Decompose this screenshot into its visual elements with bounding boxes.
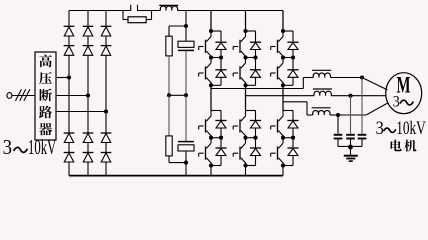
transistor V13 IGBT <box>199 111 211 138</box>
wire leg 2 cell 2 diode bottom lead <box>255 77 257 85</box>
node leg 3 top <box>281 29 285 33</box>
wire leg 1 midpoint vertical <box>210 85 212 110</box>
wire phase V output (leg 2) <box>246 95 315 97</box>
wire leg 3 cell 3 diode bottom lead <box>292 128 294 138</box>
diode VD34 freewheel <box>287 148 298 156</box>
diode VD14 <box>64 153 75 163</box>
wire input line <box>12 95 35 97</box>
wire leg 1 cell 3 top link <box>211 110 221 112</box>
diode VD22 <box>83 46 94 56</box>
diode VD24 freewheel <box>250 148 261 156</box>
resistor R3 balance lower <box>166 136 172 156</box>
label breaker text 断 <box>39 89 52 102</box>
wire R2 to midpoint <box>168 56 170 95</box>
wire cap CU bottom lead <box>361 139 363 146</box>
label motor 3~ <box>393 94 414 111</box>
node leg 3 cell 1 diode anode <box>291 55 295 59</box>
diode VD13 <box>64 133 75 143</box>
node phase C junction <box>104 109 108 113</box>
capacitor CW filter <box>334 135 343 139</box>
wire top DC+ bus (reactor to inverter) <box>178 10 283 12</box>
wire L1 to node <box>331 77 363 79</box>
inductor L3 phase W <box>313 110 330 115</box>
svg-text:10kV: 10kV <box>396 119 426 139</box>
input terminal <box>7 93 12 99</box>
node leg 2 cell 1 diode anode <box>253 55 257 59</box>
wire leg 1 cell 4 diode top lead <box>220 138 222 148</box>
motor M1 body <box>386 73 422 114</box>
wire leg 1 cell 3 diode bottom lead <box>220 128 222 138</box>
node leg 3 cell 4 emitter <box>281 163 285 167</box>
wire leg 1 cell 4 diode bottom lead <box>220 156 222 166</box>
wire leg 2 cell 3 diode top lead <box>255 111 257 121</box>
wire leg 3 cell 1 diode top lead <box>292 31 294 42</box>
wire leg 3 cell 4 diode bottom lead <box>292 156 294 166</box>
wire leg 2 cell 1 bottom link <box>246 57 256 59</box>
wire leg 3 cell 2 bottom link <box>283 84 293 86</box>
transistor V23 IGBT <box>233 111 245 138</box>
wire C1 top lead <box>185 26 187 41</box>
capacitor C1 lower plate <box>178 49 194 51</box>
wire rectifier column 3 <box>105 11 107 176</box>
wire cap CW bottom lead <box>337 139 339 146</box>
capacitor CV filter <box>346 135 355 139</box>
inductor L0 DC reactor <box>160 6 177 11</box>
diode VD31 freewheel <box>287 42 298 49</box>
wire L3 to node <box>330 114 338 116</box>
wire L2 to node <box>331 95 350 97</box>
diode VD21 <box>83 26 94 36</box>
diode VD32 <box>101 46 112 56</box>
inductor L3 core bar <box>312 107 331 109</box>
diode VD14 freewheel <box>215 148 226 156</box>
label motor text 电 <box>391 140 402 152</box>
diode VD12 <box>64 46 75 56</box>
wire link top jog <box>169 26 186 36</box>
wire cap CV bottom lead <box>350 139 352 146</box>
wire leg 3 cell 3 bottom link <box>283 137 293 139</box>
wire leg 2 cell 2 bottom link <box>246 84 256 86</box>
wire leg 1 cell 4 bottom link <box>211 165 221 167</box>
node leg 3 cell 1 emitter <box>281 55 285 59</box>
wire midpoint to R3 <box>168 95 170 136</box>
transistor V31 IGBT <box>271 31 283 58</box>
node DC link top junction <box>184 24 188 28</box>
diode VD24 <box>83 153 94 163</box>
diode VD33 <box>101 133 112 143</box>
wire phase W output (leg 3) <box>283 102 313 115</box>
node DC midpoint left <box>167 93 171 97</box>
wire precharge branch right riser <box>146 11 151 20</box>
wire R3 to bottom jog <box>169 156 186 163</box>
label breaker text 高 <box>39 55 51 68</box>
wire leg 1 cell 3 bottom link <box>211 137 221 139</box>
transistor V33 IGBT <box>271 111 283 138</box>
diode VD22 freewheel <box>250 70 261 78</box>
wire leg 1 cell 1 bottom link <box>211 57 221 59</box>
diode VD13 freewheel <box>215 121 226 129</box>
node leg 1 cell 3 diode anode <box>219 136 223 140</box>
wire star to ground <box>350 146 352 155</box>
diode VD11 <box>64 26 75 36</box>
precharge bypass contact K1 <box>131 5 138 11</box>
wire leg 2 cell 1 diode top lead <box>255 31 257 42</box>
wire midpoint to C2 <box>185 95 187 141</box>
wire leg 3 midpoint vertical <box>282 85 284 110</box>
diode VD11 freewheel <box>215 42 226 49</box>
diode VD21 freewheel <box>250 42 261 49</box>
resistor R1 precharge <box>128 17 146 23</box>
wire leg 2 cell 4 diode bottom lead <box>255 156 257 166</box>
wire DC midpoint link <box>169 94 186 96</box>
node leg 2 top <box>243 29 247 33</box>
node leg 3 cell 3 diode anode <box>291 136 295 140</box>
label breaker text 器 <box>39 123 52 135</box>
wire DC+ tap to link <box>185 11 187 26</box>
wire top DC+ bus (contact to reactor) <box>138 10 161 12</box>
wire leg 2 bottom to DC- bus <box>245 166 247 176</box>
node leg 2 cell 4 emitter <box>243 163 247 167</box>
wire leg 2 cell 3 diode bottom lead <box>255 128 257 138</box>
HV circuit breaker box <box>35 52 56 140</box>
wire rectifier column 1 <box>68 11 70 176</box>
wire leg 1 bottom to DC- bus <box>210 166 212 176</box>
diode VD32 freewheel <box>287 70 298 78</box>
node phase A junction <box>67 75 71 79</box>
transistor V32 IGBT <box>271 58 283 85</box>
wire leg 3 cell 1 bottom link <box>283 57 293 59</box>
node leg 1 top <box>209 29 213 33</box>
wire leg 3 bottom to DC- bus <box>282 166 284 176</box>
node leg 1 cell 4 emitter <box>209 163 213 167</box>
svg-text:3: 3 <box>376 119 384 139</box>
wire rectifier column 2 <box>87 11 89 176</box>
svg-text:10kV: 10kV <box>28 135 56 159</box>
wire phase U output (leg 1) <box>211 78 313 89</box>
wire leg 1 cell 1 diode top lead <box>220 31 222 42</box>
wire leg 1 cell 2 bottom link <box>211 84 221 86</box>
node leg 3 cell 3 emitter <box>281 136 285 140</box>
wire leg 2 top drop <box>245 11 247 32</box>
node leg 1 cell 1 diode anode <box>219 55 223 59</box>
node DC midpoint right <box>184 93 188 97</box>
inductor L1 phase U <box>313 73 330 78</box>
ground symbol <box>344 156 358 161</box>
diode VD12 freewheel <box>215 70 226 78</box>
label motor text 机 <box>404 140 416 152</box>
inductor L2 core bar <box>313 88 332 90</box>
diode VD33 freewheel <box>287 121 298 129</box>
wire leg 3 cell 3 top link <box>283 110 293 112</box>
node leg 1 cell 2 emitter <box>209 83 213 87</box>
node DC link bottom junction <box>184 161 188 165</box>
node leg 2 cell 2 emitter <box>243 83 247 87</box>
wire leg 3 top drop <box>282 11 284 32</box>
node filter star point <box>348 145 353 150</box>
wire leg 3 cell 4 bottom link <box>283 165 293 167</box>
wire leg 3 cell 2 diode bottom lead <box>292 77 294 85</box>
wire leg 2 cell 4 bottom link <box>246 165 256 167</box>
node filter U <box>360 75 364 79</box>
label breaker text 路 <box>39 106 52 119</box>
transistor V11 IGBT <box>199 31 211 58</box>
transistor V24 IGBT <box>233 138 245 165</box>
node leg 2 cell 1 emitter <box>243 55 247 59</box>
inductor L2 phase V <box>314 91 331 96</box>
wire leg 2 cell 3 top link <box>246 110 256 112</box>
inductor L1 core bar <box>312 69 331 71</box>
resistor R2 balance upper <box>166 36 172 56</box>
label 3~10kV motor <box>376 119 427 139</box>
diode VD23 freewheel <box>250 121 261 129</box>
node leg 1 cell 3 emitter <box>209 136 213 140</box>
wire leg 3 cell 1 diode bottom lead <box>292 50 294 58</box>
transistor V34 IGBT <box>271 138 283 165</box>
transistor V22 IGBT <box>233 58 245 85</box>
wire leg 2 cell 1 diode bottom lead <box>255 50 257 58</box>
wire leg 1 cell 3 diode top lead <box>220 111 222 121</box>
wire phase A tap <box>56 77 69 79</box>
wire leg 3 cell 1 top link <box>283 30 293 32</box>
diode VD23 <box>83 133 94 143</box>
wire leg 2 midpoint vertical <box>245 85 247 110</box>
wire top DC+ bus <box>69 10 131 12</box>
node leg 3 cell 2 emitter <box>281 83 285 87</box>
capacitor C2 upper plate <box>178 141 194 143</box>
wire leg 3 cell 4 diode top lead <box>292 138 294 148</box>
wire cap CW top lead <box>337 115 339 134</box>
wire W node extension <box>338 114 366 116</box>
three-phase hatch marks <box>16 89 30 101</box>
inductor L0 core bar <box>159 4 178 6</box>
transistor V21 IGBT <box>233 31 245 58</box>
node leg 2 cell 3 diode anode <box>253 136 257 140</box>
wire C1 to midpoint <box>185 50 187 95</box>
node filter V <box>348 94 352 98</box>
wire leg 1 cell 1 diode bottom lead <box>220 50 222 58</box>
wire U node slant to motor <box>362 78 387 90</box>
diode VD34 <box>101 153 112 163</box>
capacitor CU filter <box>358 135 367 139</box>
node phase B junction <box>86 93 90 97</box>
node filter W <box>336 113 340 117</box>
node leg 2 cell 3 emitter <box>243 136 247 140</box>
wire phase B tap <box>56 95 88 97</box>
wire C2 to bottom bus <box>185 151 187 176</box>
wire leg 1 top drop <box>210 11 212 32</box>
svg-text:3: 3 <box>3 135 12 159</box>
wire leg 2 cell 2 diode top lead <box>255 58 257 70</box>
wire leg 3 cell 3 diode top lead <box>292 111 294 121</box>
wire leg 1 cell 2 diode bottom lead <box>220 77 222 85</box>
wire precharge branch left drop <box>123 11 128 20</box>
node leg 1 cell 1 emitter <box>209 55 213 59</box>
transistor V14 IGBT <box>199 138 211 165</box>
capacitor C1 upper plate <box>178 41 194 47</box>
transistor V12 IGBT <box>199 58 211 85</box>
wire leg 2 cell 1 top link <box>246 30 256 32</box>
wire leg 2 cell 3 bottom link <box>246 137 256 139</box>
wire phase C tap <box>56 111 106 113</box>
label 3~10kV input <box>3 135 57 159</box>
wire leg 1 cell 1 top link <box>211 30 221 32</box>
wire leg 3 cell 2 diode top lead <box>292 58 294 70</box>
wire cap CV top lead <box>350 96 352 134</box>
svg-text:3: 3 <box>393 94 400 111</box>
wire W slant to motor <box>366 103 388 115</box>
wire bottom DC- bus <box>69 175 283 177</box>
wire filter common <box>338 145 362 147</box>
wire cap CU top lead <box>361 78 363 134</box>
capacitor C2 lower plate <box>178 145 194 151</box>
wire V node to motor <box>351 95 387 97</box>
diode VD31 <box>101 26 112 36</box>
wire leg 2 cell 4 diode top lead <box>255 138 257 148</box>
label breaker text 压 <box>39 72 52 84</box>
wire leg 1 cell 2 diode top lead <box>220 58 222 70</box>
